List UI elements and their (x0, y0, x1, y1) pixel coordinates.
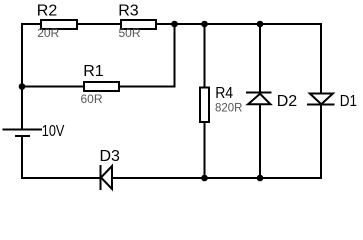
svg-text:R1: R1 (83, 63, 104, 80)
svg-text:60R: 60R (81, 92, 103, 106)
svg-text:20R: 20R (37, 26, 59, 40)
svg-text:50R: 50R (119, 26, 141, 40)
svg-text:R3: R3 (118, 2, 139, 19)
svg-text:D2: D2 (277, 93, 298, 110)
svg-text:R2: R2 (37, 2, 58, 19)
svg-text:D3: D3 (100, 148, 121, 165)
svg-text:10V: 10V (42, 123, 65, 140)
svg-text:D1: D1 (340, 93, 357, 110)
svg-text:820R: 820R (215, 101, 243, 115)
svg-text:R4: R4 (215, 85, 233, 102)
